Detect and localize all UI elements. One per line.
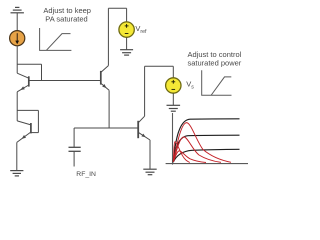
ground Q4: [143, 169, 156, 175]
power rail symbol (inverted ground) top-left: [11, 7, 24, 12]
base wire Q1-Q2: [29, 80, 101, 82]
Q3 diode tie loop: [17, 109, 38, 111]
Q4 collector wire up: [144, 66, 146, 116]
loop to Vref: [108, 7, 126, 9]
loop to Vs: [145, 65, 174, 67]
svg-text:Vref: Vref: [135, 24, 147, 35]
wire tie down: [41, 64, 43, 80]
wire Q1 emitter to Q3: [16, 92, 18, 121]
transistor Q4 (PA): [138, 116, 150, 140]
svg-text:PA saturated: PA saturated: [45, 15, 87, 24]
mini graph 1 curve: [47, 34, 71, 51]
ground left: [10, 171, 23, 176]
IV black curve 3: [173, 149, 239, 162]
current source I1: [10, 31, 25, 46]
mini graph 1 axes: [40, 28, 72, 50]
IV black curve 1: [173, 119, 239, 162]
Q2 emitter wire down: [108, 90, 110, 128]
voltage source Vref: [119, 22, 134, 37]
IV black curve 2: [173, 135, 239, 162]
IV red curve 4: [173, 151, 206, 163]
Q4 emitter wire down: [149, 140, 151, 169]
ground Vref: [120, 50, 133, 55]
svg-text:saturated power: saturated power: [188, 58, 242, 67]
base wire RF to Q4: [74, 127, 138, 129]
wire Q3 emitter to ground: [16, 142, 18, 170]
IV red curve 1: [173, 123, 231, 163]
ground Vs: [167, 105, 181, 111]
wire pwr to current source: [16, 13, 18, 31]
transistor Q1: [17, 73, 29, 92]
wire I1 to rail: [16, 46, 18, 73]
IV red curve 3: [173, 142, 190, 163]
annotation: adjust to control saturated power: [188, 50, 242, 67]
transistor Q2: [101, 66, 109, 91]
IV red curve 2: [173, 137, 221, 163]
IV graph axes: [166, 113, 248, 165]
mini graph 2 curve: [211, 77, 231, 95]
svg-text:Vs: Vs: [186, 80, 194, 91]
wire Vref to ground: [126, 37, 128, 49]
transistor Q3: [17, 121, 31, 142]
voltage source Vs: [166, 78, 181, 93]
capacitor C1: [73, 128, 75, 147]
mini graph 2 axes: [202, 70, 232, 95]
svg-text:RF_IN: RF_IN: [76, 171, 96, 178]
Q2 collector wire up: [107, 8, 109, 65]
wire Vs to ground: [172, 93, 174, 105]
top rail (diode tie Q1): [17, 63, 41, 65]
annotation: adjust to keep PA saturated: [43, 6, 91, 24]
